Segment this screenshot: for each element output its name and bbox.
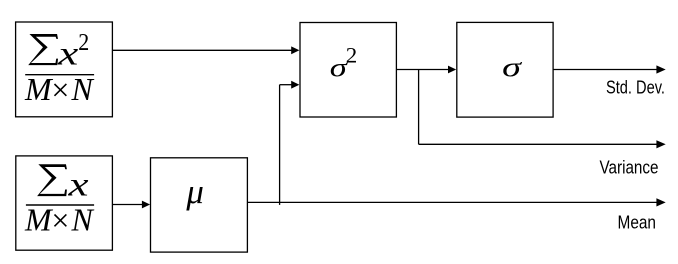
wire: sum x^2 block to sigma^2 input 1 — [113, 46, 300, 54]
block: sum x over MxN — [16, 156, 113, 250]
svg-text:x: x — [57, 36, 78, 73]
svg-text:N: N — [71, 71, 95, 107]
block: sum x^2 over MxN — [16, 22, 113, 117]
svg-text:M: M — [24, 202, 54, 238]
svg-text:Variance: Variance — [600, 158, 659, 178]
svg-text:×: × — [51, 202, 69, 238]
block: mu (mean) — [151, 158, 248, 252]
fraction bar — [25, 74, 94, 76]
block: sigma (std dev) — [457, 22, 553, 117]
wire: mu branch riser to sigma^2 input 2 — [280, 81, 300, 205]
fraction bar — [26, 204, 94, 206]
svg-text:μ: μ — [185, 172, 203, 211]
svg-text:2: 2 — [346, 43, 358, 68]
wire: sigma output to Std. Dev. arrow — [553, 65, 665, 73]
wire: variance branch down and out to Variance arrow — [419, 70, 666, 149]
sum operator — [37, 164, 67, 196]
svg-text:N: N — [71, 202, 95, 238]
wire: mu output to Mean arrow — [248, 198, 666, 206]
svg-text:Mean: Mean — [618, 213, 657, 233]
svg-text:M: M — [24, 71, 54, 107]
svg-text:σ: σ — [502, 51, 523, 82]
svg-text:2: 2 — [78, 30, 89, 56]
sum operator — [28, 34, 58, 65]
svg-text:x: x — [67, 167, 88, 204]
wire: sum x block to mu input — [113, 201, 150, 209]
wire: sigma^2 output to sigma input — [397, 66, 457, 74]
block: sigma squared (variance) — [300, 23, 396, 118]
svg-text:Std. Dev.: Std. Dev. — [606, 78, 665, 98]
svg-text:×: × — [51, 72, 69, 108]
